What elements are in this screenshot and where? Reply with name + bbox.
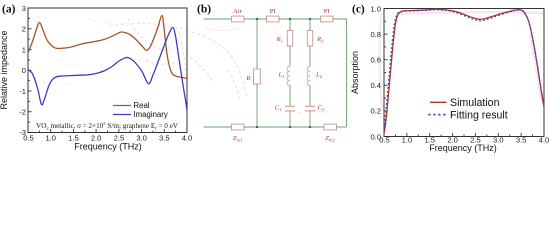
inductor L2 <box>307 66 310 85</box>
resistor PI (first) <box>267 16 280 22</box>
capacitor C1 <box>285 105 295 107</box>
svg-text:PI: PI <box>324 8 330 15</box>
svg-text:2.5: 2.5 <box>114 134 125 143</box>
svg-text:Relative impedance: Relative impedance <box>0 30 9 109</box>
resistor R2 <box>307 31 312 47</box>
node bottom branch2 <box>309 126 311 128</box>
svg-text:1.5: 1.5 <box>68 134 79 143</box>
wire branch2 top lead <box>309 19 311 31</box>
legend c Fitting result <box>429 114 447 116</box>
watermark pink curves panel a <box>110 19 187 77</box>
curve Imaginary (blue) <box>28 27 187 111</box>
svg-text:PI: PI <box>270 8 276 15</box>
curve Simulation (red) <box>384 9 544 134</box>
svg-text:1.0: 1.0 <box>402 135 413 144</box>
svg-text:2.5: 2.5 <box>470 135 481 144</box>
wire <box>279 18 321 20</box>
svg-text:3.0: 3.0 <box>136 134 147 143</box>
x tick labels c <box>379 135 549 144</box>
node top-R junction <box>256 18 258 20</box>
svg-text:0.4: 0.4 <box>370 81 381 90</box>
watermark blue dashes between panels <box>186 30 247 100</box>
wire bottom bus right <box>337 126 347 128</box>
wire <box>309 85 311 106</box>
svg-text:2.0: 2.0 <box>447 135 458 144</box>
resistor PI (second) <box>321 16 334 22</box>
y ticks a <box>28 8 32 133</box>
inductor L1 <box>287 66 290 85</box>
resistor R <box>254 69 261 84</box>
wire <box>309 46 311 67</box>
node top branch1 <box>289 18 291 20</box>
svg-text:Simulation: Simulation <box>450 97 500 109</box>
svg-text:Frequency (THz): Frequency (THz) <box>74 142 142 152</box>
svg-text:VO2 metallic, σ = 2×105 S/m; g: VO2 metallic, σ = 2×105 S/m; graphene Ef… <box>36 121 179 131</box>
svg-text:3.5: 3.5 <box>516 135 527 144</box>
wire <box>289 85 291 106</box>
svg-text:-2: -2 <box>19 108 26 117</box>
svg-text:Absorption: Absorption <box>350 51 360 94</box>
plot frame c <box>384 9 544 137</box>
wire <box>289 46 291 67</box>
node top branch2 <box>309 18 311 20</box>
curve Real (brown) <box>28 15 187 78</box>
wire <box>244 18 267 20</box>
svg-text:2: 2 <box>22 25 26 34</box>
resistor R1 <box>287 31 292 47</box>
wire branch1 top lead <box>289 19 291 31</box>
svg-text:3.0: 3.0 <box>493 135 504 144</box>
y tick labels c <box>370 4 381 141</box>
wire R branch bottom lead <box>256 84 258 127</box>
svg-text:3.5: 3.5 <box>159 134 170 143</box>
svg-text:(b): (b) <box>197 4 211 16</box>
y tick labels a <box>19 4 26 137</box>
svg-text:0.6: 0.6 <box>370 56 381 65</box>
wire capacitor C1 lower lead <box>289 111 291 127</box>
svg-text:0: 0 <box>22 66 26 75</box>
watermark pink panel c <box>380 12 543 108</box>
svg-text:Air: Air <box>233 8 243 15</box>
svg-text:4.0: 4.0 <box>182 134 193 143</box>
svg-text:1.0: 1.0 <box>45 134 56 143</box>
svg-text:(c): (c) <box>352 4 365 16</box>
wire capacitor C2 lower lead <box>309 111 311 127</box>
wire R branch top lead <box>256 19 258 69</box>
svg-text:1.0: 1.0 <box>370 4 381 13</box>
wire top bus <box>204 18 232 20</box>
svg-text:1.5: 1.5 <box>424 135 435 144</box>
svg-text:Real: Real <box>134 101 150 110</box>
svg-text:2.0: 2.0 <box>91 134 102 143</box>
resistor Zin1 <box>232 124 245 130</box>
svg-text:4.0: 4.0 <box>539 135 550 144</box>
svg-text:R: R <box>245 75 250 82</box>
legend c Simulation <box>430 101 447 103</box>
plot frame a <box>28 8 187 133</box>
svg-text:0.5: 0.5 <box>23 134 34 143</box>
capacitor C2 <box>305 105 315 107</box>
svg-text:Frequency (THz): Frequency (THz) <box>429 143 497 153</box>
svg-text:(a): (a) <box>2 4 16 16</box>
wire bottom bus left <box>204 126 232 128</box>
svg-text:Fitting result: Fitting result <box>450 109 508 121</box>
svg-text:0.8: 0.8 <box>370 30 381 39</box>
curve Fitting result (blue dotted) <box>384 10 544 132</box>
legend a Real <box>113 105 131 107</box>
legend a Imaginary <box>113 114 131 116</box>
svg-text:0.5: 0.5 <box>379 135 390 144</box>
node bottom branch1 <box>289 126 291 128</box>
resistor Air <box>232 16 245 22</box>
wire bottom bus middle <box>244 126 324 128</box>
y ticks c <box>384 9 388 137</box>
wire top-right corner down <box>333 19 347 127</box>
x ticks a <box>28 129 187 133</box>
svg-text:3: 3 <box>22 4 26 13</box>
watermark pink panel b <box>206 28 326 114</box>
svg-text:Imaginary: Imaginary <box>134 110 168 119</box>
svg-text:1: 1 <box>22 45 26 54</box>
x tick labels a <box>23 134 192 143</box>
resistor Zin2 <box>324 124 337 130</box>
x ticks c <box>384 133 544 137</box>
node bottom-R junction <box>256 126 258 128</box>
svg-text:0.2: 0.2 <box>370 107 381 116</box>
svg-text:-1: -1 <box>19 87 26 96</box>
